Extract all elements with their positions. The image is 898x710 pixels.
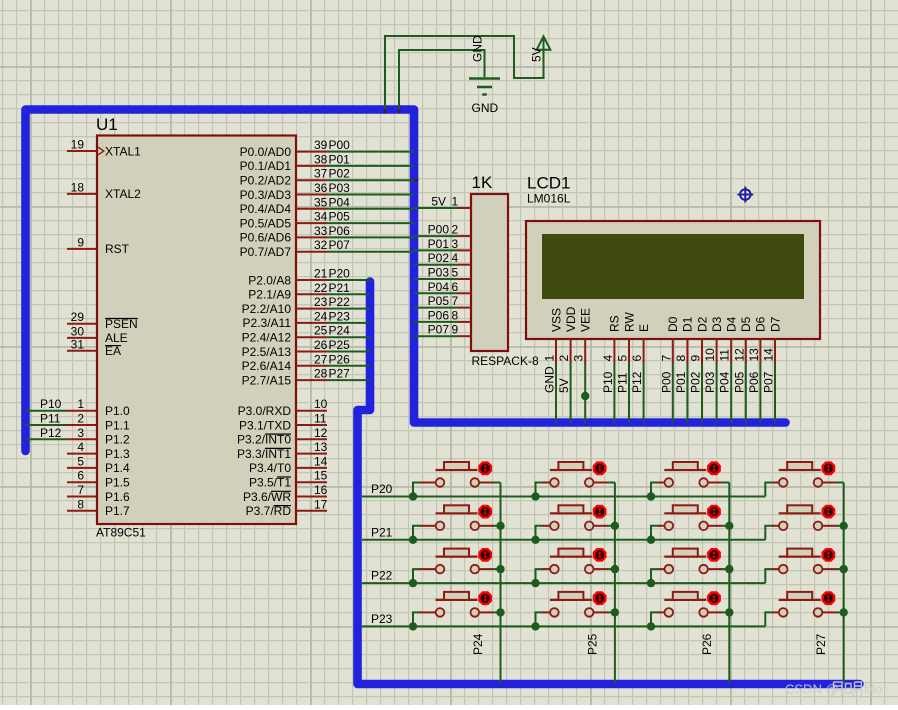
pin 8 P1.7 (U1 left) xyxy=(67,510,97,512)
svg-text:AT89C51: AT89C51 xyxy=(96,526,146,540)
svg-text:P2.4/A12: P2.4/A12 xyxy=(242,331,292,345)
wire P04 chip to bus xyxy=(327,208,414,210)
pin 6 RESPACK xyxy=(458,292,472,294)
svg-text:P25: P25 xyxy=(329,338,351,352)
svg-text:13: 13 xyxy=(747,348,761,362)
switch button row4 col3 xyxy=(664,592,729,617)
svg-text:RW: RW xyxy=(622,312,636,332)
svg-text:1K: 1K xyxy=(472,173,493,192)
ground symbol xyxy=(469,77,500,80)
svg-text:30: 30 xyxy=(71,324,85,338)
svg-text:P27: P27 xyxy=(814,633,828,655)
svg-text:XTAL1: XTAL1 xyxy=(105,144,141,158)
svg-text:E: E xyxy=(637,324,651,332)
junction col3 row2 xyxy=(725,522,733,530)
pin 1 P1.0 (U1 left) xyxy=(67,410,97,412)
wire LCD pin 11 to bus xyxy=(730,364,732,424)
wire P10 bus to U1 xyxy=(26,410,68,412)
wire LCD pin 4 to bus xyxy=(613,364,615,424)
wire elbow row4 col3 xyxy=(651,612,659,626)
svg-text:31: 31 xyxy=(71,337,85,351)
junction col3 row3 xyxy=(725,565,733,573)
pin 33 P0.6/AD6 (U1 right) xyxy=(296,236,327,238)
wire P27 chip to keypad bus xyxy=(327,379,370,381)
svg-text:LCD1: LCD1 xyxy=(527,174,570,193)
wire keypad column P27 xyxy=(843,483,845,685)
wire elbow row1 col1 xyxy=(413,483,421,497)
svg-text:12: 12 xyxy=(732,348,746,362)
svg-text:P20: P20 xyxy=(329,267,351,281)
svg-text:26: 26 xyxy=(314,338,328,352)
pin 2 P1.1 (U1 left) xyxy=(67,424,97,426)
svg-text:P1.3: P1.3 xyxy=(105,447,130,461)
junction col3 row4 xyxy=(725,608,733,616)
svg-text:P23: P23 xyxy=(329,309,351,323)
junction row1 elbow col2 xyxy=(531,492,539,500)
svg-text:2: 2 xyxy=(77,412,84,426)
svg-text:3: 3 xyxy=(572,355,586,362)
svg-text:6: 6 xyxy=(630,355,644,362)
svg-text:P00: P00 xyxy=(428,223,450,237)
svg-text:P21: P21 xyxy=(371,525,393,539)
svg-text:P2.2/A10: P2.2/A10 xyxy=(242,302,292,316)
wire keypad row P20 xyxy=(362,496,765,498)
svg-text:36: 36 xyxy=(314,181,328,195)
bus main loop xyxy=(26,110,786,452)
pin 37 P0.2/AD2 (U1 right) xyxy=(296,179,327,181)
svg-text:P2.0/A8: P2.0/A8 xyxy=(248,273,291,287)
svg-text:P0.7/AD7: P0.7/AD7 xyxy=(240,245,292,259)
svg-text:P3.1/TXD: P3.1/TXD xyxy=(239,418,291,432)
svg-text:34: 34 xyxy=(314,210,328,224)
svg-text:12: 12 xyxy=(314,426,328,440)
junction row3 elbow col1 xyxy=(409,579,417,587)
svg-text:9: 9 xyxy=(452,323,459,337)
svg-text:28: 28 xyxy=(314,367,328,381)
svg-text:10: 10 xyxy=(703,348,717,362)
svg-text:P0.6/AD6: P0.6/AD6 xyxy=(240,231,292,245)
svg-text:P12: P12 xyxy=(630,371,644,393)
wire P24 chip to keypad bus xyxy=(327,336,370,338)
pin 36 P0.3/AD3 (U1 right) xyxy=(296,194,327,196)
wire P23 chip to keypad bus xyxy=(327,322,370,324)
svg-text:14: 14 xyxy=(314,454,328,468)
svg-text:P07: P07 xyxy=(329,238,351,252)
wire P00 bus to RESPACK pin2 xyxy=(414,235,458,237)
bus entry marks xyxy=(384,105,387,113)
switch button row4 col4 xyxy=(779,592,844,617)
wire keypad row P22 xyxy=(362,582,765,584)
wire P03 bus to RESPACK pin5 xyxy=(414,278,458,280)
pin 17 P3.7/RD (U1 right) xyxy=(296,510,327,512)
svg-text:P06: P06 xyxy=(747,371,761,393)
wire LCD pin 14 to bus xyxy=(774,364,776,424)
svg-text:P1.5: P1.5 xyxy=(105,476,130,490)
svg-text:P25: P25 xyxy=(585,633,599,655)
svg-text:P0.4/AD4: P0.4/AD4 xyxy=(240,202,292,216)
pin 29 PSEN (U1 left) xyxy=(67,323,97,325)
svg-text:9: 9 xyxy=(77,235,84,249)
svg-text:35: 35 xyxy=(314,195,328,209)
svg-text:24: 24 xyxy=(314,309,328,323)
pin 27 P2.6/A14 (U1 right) xyxy=(296,365,327,367)
svg-text:39: 39 xyxy=(314,138,328,152)
pin 35 P0.4/AD4 (U1 right) xyxy=(296,208,327,210)
svg-text:VSS: VSS xyxy=(549,308,563,332)
svg-text:P1.4: P1.4 xyxy=(105,461,130,475)
svg-text:P02: P02 xyxy=(329,167,351,181)
pin 7 P1.6 (U1 left) xyxy=(67,496,97,498)
pin 3 RESPACK xyxy=(458,249,472,251)
wire P01 bus to RESPACK pin3 xyxy=(414,249,458,251)
wire P06 bus to RESPACK pin8 xyxy=(414,321,458,323)
svg-text:U1: U1 xyxy=(96,115,118,134)
svg-text:6: 6 xyxy=(452,280,459,294)
wire P04 bus to RESPACK pin6 xyxy=(414,292,458,294)
junction row4 elbow col3 xyxy=(647,622,655,630)
wire LCD pin 3 to bus xyxy=(584,364,586,424)
svg-text:27: 27 xyxy=(314,352,328,366)
wire LCD pin 10 to bus xyxy=(716,364,718,424)
svg-text:8: 8 xyxy=(77,497,84,511)
wire P02 chip to bus xyxy=(327,179,414,181)
LCD screen xyxy=(542,234,804,299)
pin 2 RESPACK xyxy=(458,235,472,237)
svg-text:P1.7: P1.7 xyxy=(105,504,130,518)
wire P05 chip to bus xyxy=(327,222,414,224)
svg-text:P0.2/AD2: P0.2/AD2 xyxy=(240,174,292,188)
pin 25 P2.4/A12 (U1 right) xyxy=(296,336,327,338)
pin 13 P3.3/INT1 (U1 right) xyxy=(296,453,327,455)
svg-text:P1.1: P1.1 xyxy=(105,418,130,432)
wire LCD pin 5 to bus xyxy=(628,364,630,424)
switch button row4 col1 xyxy=(436,592,501,617)
junction row2 elbow col2 xyxy=(531,536,539,544)
switch button row2 col1 xyxy=(436,505,501,530)
svg-text:Mo: Mo xyxy=(864,682,882,697)
svg-text:P03: P03 xyxy=(703,371,717,393)
svg-text:D2: D2 xyxy=(695,316,709,332)
pin 31 EA (U1 left) xyxy=(67,350,97,352)
svg-text:P01: P01 xyxy=(329,152,351,166)
wire elbow row2 col2 xyxy=(536,526,544,540)
wire P20 chip to keypad bus xyxy=(327,279,370,281)
svg-text:P27: P27 xyxy=(329,367,351,381)
wire LCD pin 9 to bus xyxy=(701,364,703,424)
wire P01 chip to bus xyxy=(327,165,414,167)
wire 5V net top xyxy=(385,36,544,109)
svg-text:XTAL2: XTAL2 xyxy=(105,187,141,201)
svg-text:P2.6/A14: P2.6/A14 xyxy=(242,359,292,373)
svg-text:P10: P10 xyxy=(601,371,615,393)
pin 3 P1.2 (U1 left) xyxy=(67,438,97,440)
wire P00 chip to bus xyxy=(327,151,414,153)
wire elbow row4 col2 xyxy=(536,612,544,626)
svg-text:P3.4/T0: P3.4/T0 xyxy=(249,461,291,475)
wire LCD pin 13 to bus xyxy=(759,364,761,424)
switch button row3 col3 xyxy=(664,549,729,574)
svg-text:7: 7 xyxy=(452,294,459,308)
svg-text:2: 2 xyxy=(557,355,571,362)
svg-text:P0.1/AD1: P0.1/AD1 xyxy=(240,159,292,173)
svg-text:P0.0/AD0: P0.0/AD0 xyxy=(240,145,292,159)
svg-text:P02: P02 xyxy=(689,371,703,393)
pin 8 RESPACK xyxy=(458,321,472,323)
switch button row4 col2 xyxy=(550,592,615,617)
wire P12 bus to U1 xyxy=(26,438,68,440)
svg-text:P04: P04 xyxy=(718,371,732,393)
svg-text:29: 29 xyxy=(71,310,85,324)
origin marker xyxy=(737,187,753,203)
svg-text:LM016L: LM016L xyxy=(527,192,571,206)
svg-text:23: 23 xyxy=(314,295,328,309)
wire keypad column P25 xyxy=(614,483,616,685)
junction col1 row3 xyxy=(496,565,504,573)
svg-text:P24: P24 xyxy=(471,633,485,655)
wire elbow row3 col1 xyxy=(413,569,421,583)
svg-text:10: 10 xyxy=(314,397,328,411)
svg-text:P21: P21 xyxy=(329,281,351,295)
svg-text:9: 9 xyxy=(689,355,703,362)
wire P11 bus to U1 xyxy=(26,424,68,426)
wire elbow row4 col4 xyxy=(765,612,773,626)
wire P05 bus to RESPACK pin7 xyxy=(414,307,458,309)
junction col2 row2 xyxy=(611,522,619,530)
svg-text:22: 22 xyxy=(314,281,328,295)
svg-text:P01: P01 xyxy=(428,237,450,251)
svg-text:D0: D0 xyxy=(666,316,680,332)
junction VEE wire xyxy=(581,392,589,400)
svg-text:P04: P04 xyxy=(428,280,450,294)
svg-text:CSDN @: CSDN @ xyxy=(785,682,839,697)
junction col4 row2 xyxy=(840,522,848,530)
wire P25 chip to keypad bus xyxy=(327,351,370,353)
svg-text:25: 25 xyxy=(314,324,328,338)
svg-text:13: 13 xyxy=(314,440,328,454)
wire keypad row P21 xyxy=(362,539,765,541)
resistor pack RESPACK-8 body xyxy=(471,194,508,351)
wire LCD pin 2 to bus xyxy=(570,364,572,424)
junction row2 elbow col3 xyxy=(647,536,655,544)
switch button row3 col2 xyxy=(550,549,615,574)
svg-text:P05: P05 xyxy=(329,210,351,224)
svg-text:3: 3 xyxy=(452,237,459,251)
wire keypad column P24 xyxy=(500,483,502,685)
svg-text:P20: P20 xyxy=(371,482,393,496)
wire P06 chip to bus xyxy=(327,236,414,238)
svg-text:P05: P05 xyxy=(428,294,450,308)
wire LCD pin 6 to bus xyxy=(643,364,645,424)
pin 30 ALE (U1 left) xyxy=(67,337,97,339)
junction row2 elbow col1 xyxy=(409,536,417,544)
wire P02 bus to RESPACK pin4 xyxy=(414,264,458,266)
svg-text:D3: D3 xyxy=(710,316,724,332)
switch button row2 col2 xyxy=(550,505,615,530)
svg-text:4: 4 xyxy=(452,251,459,265)
svg-text:P01: P01 xyxy=(674,371,688,393)
svg-text:1: 1 xyxy=(452,195,459,209)
wire elbow row2 col1 xyxy=(413,526,421,540)
svg-text:P24: P24 xyxy=(329,324,351,338)
wire 5V to RESPACK pin1 xyxy=(414,207,458,209)
LCD LCD1 LM016L body xyxy=(526,221,820,339)
svg-text:5V: 5V xyxy=(431,195,446,209)
watermark CSDN xyxy=(785,682,882,697)
svg-text:11: 11 xyxy=(718,349,732,362)
svg-text:4: 4 xyxy=(77,440,84,454)
pin 23 P2.2/A10 (U1 right) xyxy=(296,308,327,310)
pin 12 P3.2/INT0 (U1 right) xyxy=(296,438,327,440)
svg-text:7: 7 xyxy=(77,483,84,497)
junction col2 row3 xyxy=(611,565,619,573)
wire LCD pin 1 to bus xyxy=(555,364,557,424)
pin 39 P0.0/AD0 (U1 right) xyxy=(296,151,327,153)
pin 28 P2.7/A15 (U1 right) xyxy=(296,379,327,381)
svg-text:P3.0/RXD: P3.0/RXD xyxy=(238,404,292,418)
junction row1 elbow col1 xyxy=(409,492,417,500)
svg-text:D6: D6 xyxy=(754,316,768,332)
wire elbow row1 col4 xyxy=(765,483,773,497)
svg-text:GND: GND xyxy=(472,101,499,115)
wire elbow row3 col2 xyxy=(536,569,544,583)
svg-text:7: 7 xyxy=(659,355,673,362)
svg-text:P22: P22 xyxy=(329,295,351,309)
svg-text:D1: D1 xyxy=(681,316,695,332)
svg-text:RESPACK-8: RESPACK-8 xyxy=(472,354,539,368)
pin 4 RESPACK xyxy=(458,264,472,266)
switch button row1 col1 xyxy=(436,462,501,487)
junction col2 row4 xyxy=(611,608,619,616)
svg-text:P12: P12 xyxy=(40,426,62,440)
wire elbow row1 col2 xyxy=(536,483,544,497)
svg-text:D7: D7 xyxy=(768,316,782,332)
wire P07 chip to bus xyxy=(327,251,414,253)
svg-text:17: 17 xyxy=(314,497,328,511)
svg-text:P22: P22 xyxy=(371,569,393,583)
svg-text:3: 3 xyxy=(77,426,84,440)
junction col4 row4 xyxy=(840,608,848,616)
pin 5 RESPACK xyxy=(458,278,472,280)
svg-text:D4: D4 xyxy=(725,316,739,332)
svg-text:ALE: ALE xyxy=(105,331,128,345)
pin 5 P1.4 (U1 left) xyxy=(67,467,97,469)
svg-text:P04: P04 xyxy=(329,195,351,209)
svg-text:VEE: VEE xyxy=(579,308,593,332)
wire elbow row3 col3 xyxy=(651,569,659,583)
svg-text:8: 8 xyxy=(452,308,459,322)
pin 34 P0.5/AD5 (U1 right) xyxy=(296,222,327,224)
svg-text:38: 38 xyxy=(314,152,328,166)
svg-text:P06: P06 xyxy=(428,308,450,322)
svg-text:P07: P07 xyxy=(428,323,450,337)
svg-text:P2.1/A9: P2.1/A9 xyxy=(248,288,291,302)
svg-text:1: 1 xyxy=(77,397,84,411)
switch button row1 col2 xyxy=(550,462,615,487)
svg-text:GND: GND xyxy=(471,35,485,62)
bus keypad xyxy=(358,282,860,685)
wire LCD pin 7 to bus xyxy=(672,364,674,424)
junction col1 row2 xyxy=(496,522,504,530)
svg-text:P05: P05 xyxy=(732,371,746,393)
junction col1 row4 xyxy=(496,608,504,616)
wire GND net top xyxy=(399,50,485,109)
pin 1 RESPACK common xyxy=(458,207,472,209)
svg-text:16: 16 xyxy=(314,483,328,497)
svg-text:2: 2 xyxy=(452,223,459,237)
svg-text:21: 21 xyxy=(314,267,328,281)
pin 24 P2.3/A11 (U1 right) xyxy=(296,322,327,324)
wire LCD pin 8 to bus xyxy=(686,364,688,424)
wire P22 chip to keypad bus xyxy=(327,308,370,310)
pin 38 P0.1/AD1 (U1 right) xyxy=(296,165,327,167)
pin 26 P2.5/A13 (U1 right) xyxy=(296,351,327,353)
svg-text:P26: P26 xyxy=(700,633,714,655)
pin 9 RESPACK xyxy=(458,335,472,337)
junction row1 elbow col3 xyxy=(647,492,655,500)
svg-text:P03: P03 xyxy=(329,181,351,195)
switch button row1 col3 xyxy=(664,462,729,487)
svg-text:15: 15 xyxy=(314,469,328,483)
pin 32 P0.7/AD7 (U1 right) xyxy=(296,251,327,253)
wire elbow row2 col4 xyxy=(765,526,773,540)
svg-text:P2.7/A15: P2.7/A15 xyxy=(242,373,292,387)
switch button row2 col3 xyxy=(664,505,729,530)
svg-text:32: 32 xyxy=(314,238,328,252)
wire elbow row3 col4 xyxy=(765,569,773,583)
svg-text:P1.0: P1.0 xyxy=(105,404,130,418)
svg-text:33: 33 xyxy=(314,224,328,238)
pin 11 P3.1/TXD (U1 right) xyxy=(296,424,327,426)
pin 16 P3.6/WR (U1 right) xyxy=(296,496,327,498)
svg-text:P11: P11 xyxy=(40,412,61,426)
pin 7 RESPACK xyxy=(458,307,472,309)
svg-text:18: 18 xyxy=(71,180,85,194)
switch button row1 col4 xyxy=(779,462,844,487)
svg-text:19: 19 xyxy=(71,138,85,152)
wire LCD pin 12 to bus xyxy=(745,364,747,424)
junction row3 elbow col2 xyxy=(531,579,539,587)
svg-text:VDD: VDD xyxy=(564,306,578,332)
switch button row3 col1 xyxy=(436,549,501,574)
wire P07 bus to RESPACK pin9 xyxy=(414,335,458,337)
wire elbow row1 col3 xyxy=(651,483,659,497)
svg-text:5V: 5V xyxy=(530,47,544,62)
wire elbow row2 col3 xyxy=(651,526,659,540)
pin 18 XTAL2 (U1 left) xyxy=(67,193,97,195)
pin 14 P3.4/T0 (U1 right) xyxy=(296,467,327,469)
wire P03 chip to bus xyxy=(327,194,414,196)
switch button row2 col4 xyxy=(779,505,844,530)
svg-text:GND: GND xyxy=(543,366,557,393)
svg-text:P2.5/A13: P2.5/A13 xyxy=(242,345,292,359)
wire keypad column P26 xyxy=(728,483,730,685)
svg-text:5: 5 xyxy=(77,454,84,468)
pin 22 P2.1/A9 (U1 right) xyxy=(296,293,327,295)
svg-text:D5: D5 xyxy=(739,316,753,332)
svg-text:4: 4 xyxy=(601,355,615,362)
clock symbol XTAL1 xyxy=(98,147,104,155)
junction row3 elbow col3 xyxy=(647,579,655,587)
wire P21 chip to keypad bus xyxy=(327,293,370,295)
chip U1 AT89C51 body xyxy=(97,136,296,525)
pin 10 P3.0/RXD (U1 right) xyxy=(296,410,327,412)
svg-text:P23: P23 xyxy=(371,612,393,626)
junction row4 elbow col2 xyxy=(531,622,539,630)
svg-text:P26: P26 xyxy=(329,352,351,366)
svg-text:P02: P02 xyxy=(428,251,450,265)
power symbol 5V arrow xyxy=(537,36,551,49)
junction col4 row3 xyxy=(840,565,848,573)
